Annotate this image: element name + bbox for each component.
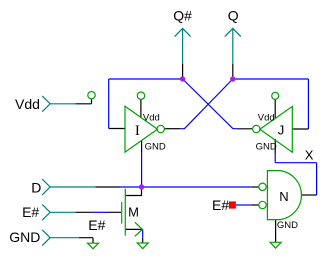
svg-text:E#: E# xyxy=(212,197,229,213)
svg-text:GND: GND xyxy=(277,220,298,231)
svg-text:D: D xyxy=(31,179,41,195)
svg-text:M: M xyxy=(128,205,139,220)
svg-text:N: N xyxy=(279,189,288,204)
svg-text:J: J xyxy=(278,122,285,137)
svg-text:GND: GND xyxy=(145,142,166,153)
svg-text:Vdd: Vdd xyxy=(15,96,40,112)
svg-text:Q: Q xyxy=(228,7,239,23)
svg-text:Vdd: Vdd xyxy=(143,112,160,123)
svg-text:X: X xyxy=(305,148,314,163)
svg-text:I: I xyxy=(135,123,140,139)
svg-text:E#: E# xyxy=(22,204,39,220)
svg-text:GND: GND xyxy=(9,229,40,245)
svg-text:GND: GND xyxy=(256,142,277,153)
svg-text:Q#: Q# xyxy=(173,7,192,23)
svg-text:Vdd: Vdd xyxy=(258,112,275,123)
svg-text:E#: E# xyxy=(88,217,105,233)
